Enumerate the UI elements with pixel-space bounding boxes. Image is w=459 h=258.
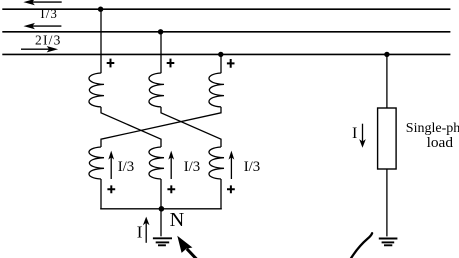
annotation curved stroke pointing at load ground xyxy=(351,233,373,258)
svg-text:Single-phase: Single-phase xyxy=(406,121,459,136)
wire phase B (middle bus) xyxy=(2,31,450,33)
ground (load) xyxy=(379,239,398,246)
node: junction dot phase C / column 3 xyxy=(218,52,223,57)
svg-text:I/3: I/3 xyxy=(118,159,135,175)
polarity + top winding 3 xyxy=(227,59,235,68)
wire bottom leg winding 1 xyxy=(100,179,102,209)
annotation cursor arrow pointing at neutral ground xyxy=(177,236,197,258)
polarity + bottom winding 1 xyxy=(107,185,115,193)
current arrow I/3 on phase B (pointing left) xyxy=(24,23,62,29)
current arrow I/3 beside bottom winding 1 xyxy=(108,151,114,179)
svg-text:I/3: I/3 xyxy=(184,159,201,175)
winding top 3 xyxy=(209,73,224,107)
wire load to ground xyxy=(386,169,388,236)
load resistor (single-phase load) xyxy=(378,108,397,169)
winding bottom 1 (zigzag lower winding) xyxy=(89,147,104,179)
wire bottom leg winding 2 xyxy=(160,179,162,209)
winding top 2 xyxy=(149,73,164,107)
svg-text:I: I xyxy=(352,125,357,142)
svg-text:load: load xyxy=(427,135,454,151)
polarity + top winding 2 xyxy=(167,59,175,68)
svg-text:I/3: I/3 xyxy=(40,6,57,21)
polarity + bottom winding 3 xyxy=(227,185,235,193)
ground (neutral) xyxy=(153,238,172,245)
node: junction dot phase A / column 1 xyxy=(98,7,103,12)
wire zigzag cross link: top 2 to bottom 3 xyxy=(161,107,221,147)
node: junction dot phase C / load tap xyxy=(384,52,389,57)
current arrow 2I/3 on phase C (pointing right) xyxy=(21,46,58,52)
wire neutral bus xyxy=(100,208,222,210)
wire column 3 drop from phase C xyxy=(220,54,222,73)
svg-text:I/3: I/3 xyxy=(244,159,261,175)
current arrow I into load (down) xyxy=(359,124,366,148)
current arrow I/3 beside bottom winding 2 xyxy=(168,151,174,179)
polarity + top winding 1 xyxy=(107,59,115,68)
node: junction dot phase B / column 2 xyxy=(158,29,163,34)
wire zigzag cross link: top 3 to bottom 1 xyxy=(101,107,221,147)
winding bottom 2 xyxy=(149,147,164,179)
wire column 2 drop from phase B xyxy=(160,32,162,73)
wire zigzag cross link: top 1 to bottom 2 xyxy=(101,107,161,147)
wire bottom leg winding 3 xyxy=(220,179,222,209)
svg-text:I: I xyxy=(137,222,143,241)
winding top 1 (phase A upper zigzag winding) xyxy=(89,73,104,107)
wire neutral to ground xyxy=(160,209,162,237)
svg-text:2I/3: 2I/3 xyxy=(35,32,62,47)
wire phase A (top bus) xyxy=(2,8,450,10)
node N junction dot xyxy=(159,206,165,212)
current arrow I/3 on phase A (pointing left) xyxy=(23,0,61,5)
wire load tap drop xyxy=(386,54,388,108)
wire phase C (bottom bus) xyxy=(2,53,450,55)
current arrow I into neutral (up) xyxy=(143,217,150,243)
polarity + bottom winding 2 xyxy=(167,185,175,193)
wire column 1 drop from phase A xyxy=(100,9,102,73)
svg-text:N: N xyxy=(170,209,185,231)
current arrow I/3 beside bottom winding 3 xyxy=(229,151,235,179)
winding bottom 3 xyxy=(209,147,224,179)
